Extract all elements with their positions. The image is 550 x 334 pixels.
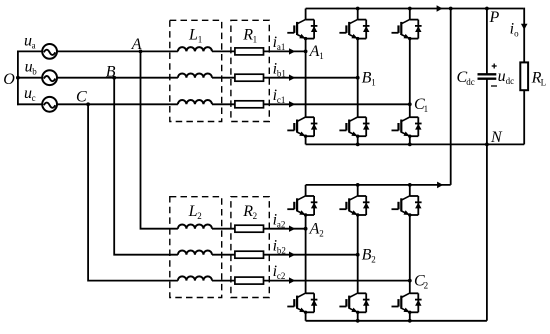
AC source u_b xyxy=(42,70,57,85)
wire phase a from bus to source xyxy=(17,50,42,52)
wire row c1 to bridge node C1 xyxy=(212,103,410,105)
wire leg C1 upper stub xyxy=(409,9,411,20)
label L1 xyxy=(188,27,202,45)
inductor L1 phase c xyxy=(178,100,212,104)
wire upper module to node C2 xyxy=(409,215,411,281)
label i_b1 xyxy=(273,60,286,78)
wire node C down to row c2 xyxy=(88,104,178,280)
wire lower module B to N rail xyxy=(357,136,359,144)
svg-text:R: R xyxy=(242,203,253,220)
IGBT module bridge2 lower leg A xyxy=(287,293,317,314)
svg-text:1: 1 xyxy=(424,104,429,114)
current arrow i_b1 xyxy=(289,75,295,81)
wire leg C2 upper stub xyxy=(409,185,411,196)
svg-text:c2: c2 xyxy=(277,271,286,281)
wire row a2 to bridge node A2 xyxy=(212,228,306,230)
wire bridge2 negative rail xyxy=(306,320,487,322)
wire row b1 to bridge node B1 xyxy=(212,77,358,79)
inductor L1 phase a xyxy=(178,47,212,51)
IGBT module bridge1 lower leg A xyxy=(287,117,317,138)
svg-text:P: P xyxy=(489,9,500,26)
node C xyxy=(86,102,90,106)
arrow on P rail xyxy=(437,5,443,12)
resistor R2 phase a xyxy=(235,225,264,232)
label u_dc xyxy=(498,68,514,86)
label A xyxy=(131,36,142,53)
current arrow i_c2 xyxy=(289,277,295,283)
svg-text:c: c xyxy=(32,93,36,103)
svg-text:1: 1 xyxy=(371,77,376,87)
minus sign of u_dc xyxy=(491,85,497,87)
svg-text:L: L xyxy=(541,78,547,88)
node O xyxy=(16,76,20,80)
dashed box filter R1 xyxy=(231,20,269,121)
wire row a1 to bridge node A1 xyxy=(212,50,306,52)
svg-text:b2: b2 xyxy=(277,245,286,255)
junction bridge2 top rail leg C2 xyxy=(408,183,412,187)
label C_dc xyxy=(457,69,475,87)
svg-text:O: O xyxy=(3,71,15,88)
svg-text:b1: b1 xyxy=(277,68,286,78)
svg-text:dc: dc xyxy=(466,77,475,87)
wire load branch bottom xyxy=(523,90,525,144)
wire node B1 to lower module xyxy=(357,78,359,118)
wire phase b from bus to source xyxy=(17,77,42,79)
wire lower module A to N rail xyxy=(305,136,307,144)
wire leg B2 upper stub xyxy=(357,185,359,196)
wire upper module to node A2 xyxy=(305,215,307,229)
node A2 xyxy=(304,227,308,231)
wire node C2 to lower module xyxy=(409,281,411,294)
svg-text:dc: dc xyxy=(506,76,514,86)
svg-text:L: L xyxy=(188,203,198,220)
label L2 xyxy=(188,203,202,221)
IGBT module bridge1 upper leg A xyxy=(287,19,317,40)
IGBT module bridge1 lower leg C xyxy=(392,117,422,138)
svg-text:a1: a1 xyxy=(277,42,286,52)
svg-text:o: o xyxy=(514,28,519,38)
wire upper module to node C1 xyxy=(409,39,411,105)
wire load branch top xyxy=(523,9,526,63)
node B xyxy=(112,76,116,80)
wire P branch vertical xyxy=(450,9,452,185)
wire node C1 to lower module xyxy=(409,104,411,117)
dashed box filter L1 xyxy=(170,20,222,121)
junction N rail leg B1 xyxy=(356,143,360,147)
AC source u_c xyxy=(42,97,57,112)
svg-text:u: u xyxy=(498,68,506,85)
wire DC positive rail P xyxy=(306,8,524,10)
wire capacitor branch lower xyxy=(486,79,488,145)
IGBT module bridge2 upper leg A xyxy=(287,196,317,217)
dashed box filter L2 xyxy=(170,197,222,298)
wire phase c from bus to source xyxy=(17,103,42,105)
IGBT module bridge2 lower leg C xyxy=(392,293,422,314)
wire left bus from phase a to phase c xyxy=(17,51,19,106)
IGBT module bridge2 upper leg B xyxy=(339,196,369,217)
wire lower module C to bottom rail xyxy=(409,312,411,321)
label A1 xyxy=(309,43,324,61)
junction top rail leg B1 xyxy=(356,7,360,11)
svg-text:N: N xyxy=(490,129,503,146)
svg-text:2: 2 xyxy=(253,211,258,221)
IGBT module bridge1 lower leg B xyxy=(339,117,369,138)
dashed box filter R2 xyxy=(231,197,269,298)
label u_a xyxy=(24,33,36,51)
svg-text:L: L xyxy=(188,27,198,44)
label C2 xyxy=(414,272,428,290)
svg-text:2: 2 xyxy=(197,211,202,221)
wire node A2 to lower module xyxy=(305,229,307,294)
label O xyxy=(3,71,15,88)
resistor R1 phase b xyxy=(235,74,264,81)
svg-text:A: A xyxy=(131,36,142,53)
node C1 xyxy=(408,102,412,106)
svg-text:B: B xyxy=(362,69,372,86)
svg-text:1: 1 xyxy=(319,51,324,61)
svg-text:B: B xyxy=(362,247,372,264)
junction bridge2 bottom rail leg B2 xyxy=(356,319,360,323)
label C1 xyxy=(414,96,428,114)
current arrow i_c1 xyxy=(289,101,295,107)
current arrow i_o xyxy=(521,24,528,30)
wire capacitor branch upper xyxy=(486,9,488,75)
label P xyxy=(489,9,500,26)
svg-text:2: 2 xyxy=(371,255,376,265)
node B1 xyxy=(356,76,360,80)
svg-text:c1: c1 xyxy=(277,95,286,105)
IGBT module bridge2 lower leg B xyxy=(339,293,369,314)
wire row b2 to bridge node B2 xyxy=(212,254,358,256)
label u_b xyxy=(25,59,38,77)
label i_o xyxy=(510,20,519,38)
IGBT module bridge2 upper leg C xyxy=(392,196,422,217)
current arrow i_a1 xyxy=(289,48,295,54)
label i_a1 xyxy=(273,34,286,52)
wire lower module A to bottom rail xyxy=(305,312,307,321)
current arrow i_b2 xyxy=(289,252,295,258)
label N xyxy=(490,129,503,146)
wire node B down to row b2 xyxy=(114,78,178,255)
wire phase b from source to inductor L1b xyxy=(57,77,178,79)
AC source u_a xyxy=(42,44,57,59)
svg-text:C: C xyxy=(76,89,87,106)
label B xyxy=(106,63,116,80)
svg-text:a2: a2 xyxy=(277,219,286,229)
label B1 xyxy=(362,69,376,87)
wire leg B1 upper stub xyxy=(357,9,359,20)
junction bridge2 bottom rail leg C2 xyxy=(408,319,412,323)
node C2 xyxy=(408,279,412,283)
wire upper module to node B1 xyxy=(357,39,359,78)
junction top rail leg C1 xyxy=(408,7,412,11)
wire node A down to row a2 xyxy=(141,51,178,228)
node B2 xyxy=(356,253,360,257)
inductor L1 phase b xyxy=(178,73,212,77)
wire bridge2 positive rail xyxy=(306,184,451,186)
capacitor C_dc xyxy=(478,74,497,78)
label R1 xyxy=(242,27,257,45)
svg-text:a: a xyxy=(32,41,36,51)
wire lower module C to N rail xyxy=(409,136,411,144)
label i_c2 xyxy=(273,263,286,281)
node N junction xyxy=(485,143,489,147)
label R_L xyxy=(531,70,547,88)
load resistor R_L xyxy=(520,62,528,90)
node A xyxy=(139,50,143,54)
junction bridge2 top rail leg B2 xyxy=(356,183,360,187)
label u_c xyxy=(24,85,36,103)
current arrow i_a2 xyxy=(289,226,295,232)
wire node A1 to lower module xyxy=(305,51,307,117)
wire upper module to node A1 xyxy=(305,39,307,52)
junction N rail leg C1 xyxy=(408,143,412,147)
svg-text:1: 1 xyxy=(198,35,203,45)
svg-text:2: 2 xyxy=(319,229,324,239)
label R2 xyxy=(242,203,257,221)
svg-text:A: A xyxy=(309,221,320,238)
inductor L2 phase b xyxy=(178,250,212,254)
junction top rail P branch xyxy=(449,7,453,11)
plus sign of u_dc xyxy=(492,64,497,69)
inductor L2 phase a xyxy=(178,224,212,228)
junction top rail capacitor branch xyxy=(485,7,489,11)
svg-text:2: 2 xyxy=(424,280,429,290)
wire leg A2 upper stub xyxy=(305,185,307,196)
label i_a2 xyxy=(273,211,286,229)
wire DC negative rail N xyxy=(306,143,525,145)
svg-text:A: A xyxy=(309,43,320,60)
resistor R1 phase a xyxy=(235,48,264,55)
arrow on bridge2 positive rail xyxy=(437,182,443,189)
inductor L2 phase c xyxy=(178,276,212,280)
label i_c1 xyxy=(273,87,286,105)
resistor R1 phase c xyxy=(235,101,264,108)
wire upper module to node B2 xyxy=(357,215,359,255)
wire node B2 to lower module xyxy=(357,255,359,294)
svg-text:R: R xyxy=(242,27,253,44)
wire bridge2 negative rail to N xyxy=(486,144,488,320)
IGBT module bridge1 upper leg B xyxy=(339,19,369,40)
label i_b2 xyxy=(273,237,286,255)
resistor R2 phase b xyxy=(235,251,264,258)
label C xyxy=(76,89,87,106)
wire phase a from source to inductor L1a xyxy=(57,50,178,52)
wire row c2 to bridge node C2 xyxy=(212,280,410,282)
svg-text:1: 1 xyxy=(253,35,258,45)
resistor R2 phase c xyxy=(235,277,264,284)
wire phase c from source to inductor L1c xyxy=(57,103,178,105)
label B2 xyxy=(362,247,376,265)
wire leg A1 upper stub xyxy=(305,9,307,20)
wire lower module B to bottom rail xyxy=(357,312,359,321)
label A2 xyxy=(309,221,324,239)
node A1 xyxy=(304,50,308,54)
IGBT module bridge1 upper leg C xyxy=(392,19,422,40)
svg-text:b: b xyxy=(32,67,37,77)
